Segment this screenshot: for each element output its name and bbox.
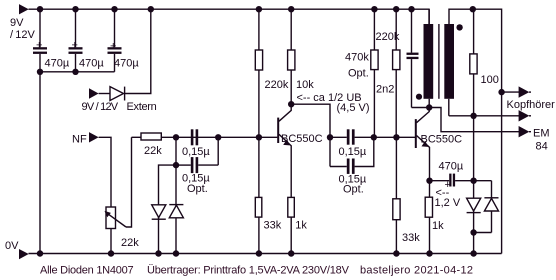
- svg-text:220k: 220k: [376, 31, 400, 43]
- wire cap bus to 0V rail: [39, 72, 41, 254]
- svg-text:Opt.: Opt.: [348, 68, 369, 80]
- resistor R4 33k: [255, 137, 281, 253]
- capacitor C2 470u: [69, 9, 105, 72]
- diode D2 clamp right: [169, 165, 183, 253]
- wire emitter2 annotation: [435, 187, 461, 209]
- wire secondary bottom to Kopfhoerer output: [449, 115, 519, 117]
- transistor Q2 BC550C: [415, 108, 462, 181]
- svg-text:100: 100: [481, 74, 499, 86]
- svg-text:+: +: [110, 41, 116, 53]
- junction dots output nodes: [426, 89, 505, 236]
- svg-text:0V: 0V: [5, 240, 19, 252]
- wire collector to coupling caps: [291, 104, 330, 166]
- svg-text:22k: 22k: [144, 145, 162, 157]
- svg-text:+: +: [36, 40, 42, 52]
- svg-text:Alle Dioden 1N4007: Alle Dioden 1N4007: [40, 265, 133, 277]
- wire clamp node column: [175, 137, 177, 165]
- svg-text:BC550C: BC550C: [421, 134, 463, 146]
- wire NF to potentiometer: [99, 137, 111, 207]
- resistor R3 10k: [288, 9, 315, 104]
- diode D4 clamp right stage2: [484, 181, 498, 233]
- wire diode to top rail: [125, 9, 151, 93]
- wire top rail right segment (secondary to headphone): [449, 9, 502, 253]
- wire clamp2 top/bottom loop: [474, 116, 492, 254]
- diode D5 extern: [110, 87, 125, 101]
- svg-text:+: +: [445, 179, 451, 191]
- svg-text:EM: EM: [533, 128, 550, 140]
- svg-text:Opt.: Opt.: [343, 184, 364, 196]
- node output arrow Kopfhoerer 2: [519, 110, 531, 121]
- svg-text:+: +: [72, 40, 78, 52]
- resistor R7 220k stage2: [376, 9, 400, 137]
- wire capacitor bottoms bus: [40, 71, 115, 73]
- wire base row stage 2: [374, 136, 415, 138]
- svg-text:/ 12V: / 12V: [10, 29, 35, 41]
- junction dots cap bus: [37, 69, 79, 75]
- svg-text:1k: 1k: [432, 220, 444, 232]
- node output arrow Kopfhoerer 1: [507, 86, 556, 111]
- transformer polarity dot primary: [416, 94, 422, 100]
- junction dots top rail: [37, 6, 476, 12]
- svg-text:(4,5 V): (4,5 V): [337, 102, 370, 114]
- svg-text:0,15µ: 0,15µ: [339, 146, 367, 158]
- svg-text:470k: 470k: [345, 52, 369, 64]
- wire row2 left to diode D1: [159, 165, 177, 205]
- wire collector node to EM output: [429, 108, 519, 132]
- node 9V/12V input arrow: [10, 4, 35, 41]
- resistor R6 470k Opt.: [345, 9, 378, 137]
- svg-text:9V: 9V: [10, 17, 24, 29]
- svg-text:33k: 33k: [264, 220, 282, 232]
- node 0V input arrow: [5, 240, 29, 259]
- svg-text:BC550C: BC550C: [281, 133, 323, 145]
- capacitor C5 0,15u Opt.: [176, 157, 218, 195]
- wire 2n2 bottom to collector node: [412, 107, 430, 109]
- transformer polarity dot secondary: [456, 24, 462, 30]
- wire R1 to base node row: [161, 136, 277, 138]
- svg-text:84: 84: [536, 141, 548, 153]
- svg-text:470µ: 470µ: [114, 58, 139, 70]
- svg-text:2n2: 2n2: [376, 84, 394, 96]
- node output arrow EM 84: [519, 126, 550, 153]
- svg-text:basteljero 2021-04-12: basteljero 2021-04-12: [360, 265, 473, 277]
- resistor R1 22k series: [132, 133, 163, 157]
- svg-text:0,15µ: 0,15µ: [182, 146, 210, 158]
- wire wiper to 22k resistor: [126, 137, 132, 227]
- svg-text:1,2 V: 1,2 V: [435, 197, 461, 209]
- resistor R9 100: [470, 9, 499, 116]
- svg-text:9V / 12V: 9V / 12V: [82, 101, 119, 113]
- capacitor C9 470u output: [430, 161, 474, 192]
- transformer TR1 core: [438, 24, 440, 99]
- resistor R8 33k stage2: [393, 137, 420, 253]
- svg-text:Opt.: Opt.: [187, 183, 208, 195]
- transistor Q1 BC550C: [277, 104, 322, 197]
- wire top supply rail left segment: [29, 9, 430, 24]
- wire extern arrow to diode: [99, 93, 110, 95]
- svg-text:1k: 1k: [295, 220, 307, 232]
- svg-text:Extern: Extern: [127, 101, 157, 113]
- junction dots signal row: [173, 134, 400, 168]
- caption bottom notes: [40, 265, 473, 277]
- capacitor C1 470u: [33, 9, 70, 72]
- junction dots bottom rail: [37, 250, 477, 256]
- svg-text:470µ: 470µ: [79, 58, 104, 70]
- wire headphone top tap: [502, 91, 520, 93]
- capacitor C7 0,15u Opt. coupling: [330, 137, 374, 195]
- svg-text:220k: 220k: [265, 79, 289, 91]
- resistor R2 220k: [255, 9, 289, 137]
- diode D3 clamp left stage2: [467, 198, 481, 212]
- wire Q1 collector node annotation: [297, 92, 370, 114]
- capacitor C3 470u: [108, 9, 140, 72]
- node NF input arrow: [72, 132, 99, 145]
- wire potentiometer to 0V: [110, 229, 112, 254]
- svg-text:33k: 33k: [402, 232, 420, 244]
- diode D1 clamp left: [152, 205, 166, 254]
- transformer TR1 primary winding: [424, 9, 434, 107]
- svg-text:470µ: 470µ: [439, 161, 464, 173]
- capacitor C8 2n2: [376, 9, 419, 107]
- wire bottom 0V rail: [29, 253, 502, 255]
- wire C5 right to row1: [217, 137, 219, 165]
- svg-text:470µ: 470µ: [45, 58, 70, 70]
- potentiometer P1 22k: [105, 207, 140, 249]
- svg-text:10k: 10k: [296, 79, 314, 91]
- svg-text:Kopfhörer: Kopfhörer: [507, 99, 556, 111]
- capacitor C6 0,15u coupling: [330, 129, 374, 158]
- transformer TR1 secondary winding: [444, 24, 454, 116]
- svg-text:Übertrager: Printtrafo 1,5VA-2: Übertrager: Printtrafo 1,5VA-2VA 230V/18…: [147, 265, 350, 277]
- resistor R10 1k emitter stage2: [425, 181, 444, 254]
- resistor R5 1k emitter: [288, 197, 308, 253]
- node extern input arrow: [82, 88, 157, 113]
- junction dots collector nodes: [288, 101, 432, 111]
- svg-text:22k: 22k: [121, 237, 139, 249]
- svg-text:NF: NF: [72, 134, 87, 146]
- capacitor C4 0,15u: [182, 129, 210, 158]
